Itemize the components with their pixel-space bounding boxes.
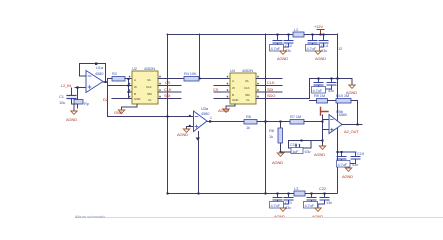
inductor L2 on top bus bbox=[293, 27, 304, 37]
svg-text:W: W bbox=[134, 85, 137, 89]
svg-text:AGND: AGND bbox=[315, 56, 326, 61]
node D2 label bbox=[103, 97, 128, 102]
svg-text:U4: U4 bbox=[230, 68, 236, 73]
svg-text:R9 1M: R9 1M bbox=[314, 93, 325, 98]
junction x322 row122 bbox=[322, 121, 324, 123]
svg-text:A: A bbox=[232, 79, 234, 83]
wire U5 plus input bbox=[323, 129, 330, 131]
svg-text:R10 1M: R10 1M bbox=[336, 93, 349, 98]
wire L2_IN to op-amp bbox=[75, 86, 86, 93]
wire minus input row bbox=[108, 116, 194, 118]
wire row y=78 caps bbox=[310, 79, 353, 99]
wire top bus bbox=[167, 34, 337, 36]
junction at left vertical bbox=[167, 116, 169, 118]
node labels right of U2 bbox=[164, 80, 172, 98]
ground R8 bbox=[272, 153, 284, 165]
node labels right of U4 bbox=[267, 80, 275, 98]
capacitor pair C13 C14 under +12V bbox=[306, 34, 329, 54]
op-amp U5 bbox=[329, 109, 348, 134]
svg-text:W: W bbox=[232, 86, 235, 90]
wire U5 minus input bbox=[323, 119, 330, 121]
svg-text:CLK: CLK bbox=[164, 87, 172, 92]
wire left vertical bbox=[167, 34, 169, 193]
resistor R7 bbox=[290, 114, 322, 124]
footer text bbox=[75, 214, 105, 219]
svg-text:B: B bbox=[134, 92, 136, 96]
svg-text:SDI: SDI bbox=[245, 93, 250, 97]
svg-text:R2: R2 bbox=[112, 71, 118, 76]
ground bottom B bbox=[312, 208, 323, 219]
resistor R6 bbox=[244, 114, 290, 130]
svg-text:GND: GND bbox=[134, 97, 141, 101]
wire vertical mid-right bbox=[265, 34, 267, 193]
wire IC2 left pins bbox=[214, 86, 230, 99]
svg-text:4.7uF: 4.7uF bbox=[338, 162, 348, 167]
resistor R10 bbox=[336, 93, 358, 124]
svg-text:CLK: CLK bbox=[146, 85, 152, 89]
svg-text:SDI: SDI bbox=[147, 92, 152, 96]
svg-text:4.7uF: 4.7uF bbox=[271, 203, 281, 208]
node A2_OUT bbox=[344, 129, 359, 134]
node CS label bbox=[213, 87, 219, 92]
svg-text:C15: C15 bbox=[290, 142, 298, 147]
resistor R4 bbox=[184, 71, 230, 81]
svg-text:4580: 4580 bbox=[339, 112, 348, 117]
svg-text:AGND: AGND bbox=[277, 56, 288, 61]
wire bottom bus bbox=[167, 193, 337, 195]
svg-text:63v: 63v bbox=[321, 48, 327, 53]
junction feedback top bbox=[95, 63, 97, 65]
ground IC1 bbox=[114, 104, 137, 115]
svg-text:AGND: AGND bbox=[314, 152, 325, 157]
capacitor C1 bbox=[59, 88, 76, 105]
junction U3 power bus bbox=[198, 193, 200, 195]
svg-text:43v: 43v bbox=[352, 162, 358, 167]
capacitor pair C18 C19 bbox=[337, 151, 365, 167]
junction right vertical y152 bbox=[337, 151, 339, 153]
ground bottom A bbox=[274, 208, 286, 219]
net flag plus input bbox=[321, 108, 329, 120]
junction bottom bus corners bbox=[167, 193, 267, 195]
svg-text:C19: C19 bbox=[357, 151, 365, 156]
resistor R8 vertical bbox=[269, 122, 283, 153]
svg-text:GND: GND bbox=[114, 110, 123, 115]
op-amp U1 bbox=[86, 65, 104, 93]
svg-text:C22: C22 bbox=[319, 186, 327, 191]
capacitor pair C16 C17 bbox=[312, 78, 337, 94]
svg-text:SDO: SDO bbox=[267, 93, 275, 98]
svg-text:GND: GND bbox=[232, 98, 239, 102]
footer rule bbox=[75, 217, 443, 218]
svg-text:AGND: AGND bbox=[342, 174, 353, 179]
svg-text:VA: VA bbox=[245, 79, 249, 83]
ground IC2 bbox=[218, 104, 235, 113]
svg-text:63v: 63v bbox=[305, 149, 311, 154]
svg-text:1k: 1k bbox=[246, 125, 250, 130]
junction output row mid vertical bbox=[265, 121, 267, 123]
svg-text:1: 1 bbox=[210, 116, 212, 120]
junction U1 out bbox=[105, 81, 107, 83]
svg-text:R7 1M: R7 1M bbox=[290, 114, 301, 119]
inductor L3 bottom bus bbox=[294, 186, 305, 196]
svg-text:10u: 10u bbox=[59, 100, 65, 105]
svg-text:R4 10K: R4 10K bbox=[184, 71, 197, 76]
wire vertical x=322 bbox=[322, 120, 324, 146]
ground AGND input bbox=[66, 111, 77, 122]
wire to IC1 pins bbox=[108, 79, 133, 99]
svg-text:R6: R6 bbox=[246, 114, 252, 119]
svg-text:C1: C1 bbox=[59, 94, 65, 99]
wire IC2 right pins bbox=[256, 79, 309, 99]
svg-text:4052N: 4052N bbox=[144, 66, 155, 71]
svg-text:U2: U2 bbox=[132, 66, 138, 71]
svg-text:L2_IN: L2_IN bbox=[61, 83, 71, 88]
wire U3 power down bbox=[196, 132, 201, 194]
svg-text:13v: 13v bbox=[326, 200, 332, 205]
wire join to ground bbox=[72, 104, 78, 110]
IC U4 4052 bbox=[230, 68, 256, 104]
svg-text:CS: CS bbox=[165, 80, 171, 85]
svg-text:CLK: CLK bbox=[244, 86, 250, 90]
svg-text:B: B bbox=[232, 93, 234, 97]
svg-text:R8: R8 bbox=[269, 128, 275, 133]
svg-text:AGND: AGND bbox=[177, 132, 188, 137]
capacitor pair C11 C12 under top bus bbox=[270, 34, 294, 54]
svg-text:CLK: CLK bbox=[267, 80, 275, 85]
junction output row R7 bbox=[280, 121, 282, 123]
svg-text:1uF: 1uF bbox=[292, 149, 299, 154]
wire U1 output bbox=[103, 79, 108, 117]
svg-text:U1a: U1a bbox=[96, 65, 104, 70]
ground x322 bbox=[314, 146, 326, 157]
svg-text:4.7uF: 4.7uF bbox=[307, 46, 317, 51]
ground cap pair 2 bbox=[315, 51, 326, 61]
wire right vertical bbox=[337, 34, 339, 193]
junction y78 bbox=[337, 78, 339, 80]
svg-text:AGND: AGND bbox=[66, 117, 77, 122]
svg-text:CS: CS bbox=[213, 87, 219, 92]
pin numbers U2 U4 bbox=[129, 76, 259, 98]
wire U3 output row bbox=[207, 116, 244, 123]
IC U2 4052 bbox=[132, 66, 158, 104]
svg-text:4.7uF: 4.7uF bbox=[271, 46, 281, 51]
svg-text:63v: 63v bbox=[285, 48, 291, 53]
wire IC1 right pins bbox=[158, 79, 183, 99]
wire vertical from top bus to R4 node bbox=[199, 34, 201, 79]
svg-text:L3: L3 bbox=[294, 186, 299, 191]
node label on rail bbox=[338, 46, 343, 51]
svg-text:4.7uF: 4.7uF bbox=[305, 203, 315, 208]
svg-text:VA: VA bbox=[147, 78, 151, 82]
svg-text:4052N: 4052N bbox=[242, 68, 253, 73]
capacitor pair C20 C21 bottom A bbox=[270, 193, 294, 211]
svg-text:4580: 4580 bbox=[95, 71, 104, 76]
resistor R2 bbox=[108, 71, 133, 81]
svg-text:12: 12 bbox=[338, 46, 343, 51]
junction R4 right bbox=[199, 78, 201, 80]
svg-text:Rp: Rp bbox=[84, 101, 90, 106]
junction feedback bbox=[357, 124, 359, 126]
ground C18 C19 bbox=[342, 168, 353, 179]
svg-text:SDI: SDI bbox=[267, 87, 273, 92]
svg-text:4580: 4580 bbox=[201, 111, 210, 116]
svg-text:AGND: AGND bbox=[272, 160, 283, 165]
node L2_IN bbox=[61, 83, 71, 88]
ground cap pair 1 bbox=[277, 51, 288, 61]
wire U1 feedback loop bbox=[80, 64, 106, 83]
svg-text:63v: 63v bbox=[285, 205, 291, 210]
wire plus input to ground bbox=[187, 115, 194, 128]
svg-text:SDI: SDI bbox=[164, 93, 170, 98]
svg-text:L2: L2 bbox=[294, 27, 299, 32]
power +12V bbox=[314, 24, 324, 36]
resistor R9 bbox=[310, 93, 337, 103]
svg-text:A: A bbox=[134, 78, 136, 82]
op-amp U3 bbox=[194, 106, 211, 132]
svg-text:AGND: AGND bbox=[218, 108, 229, 113]
wire U5 output bbox=[342, 124, 362, 126]
ground caps right bbox=[346, 79, 357, 96]
svg-text:A2_OUT: A2_OUT bbox=[344, 129, 359, 134]
capacitor pair C22 C23 bottom B bbox=[304, 186, 333, 208]
svg-text:43v: 43v bbox=[328, 88, 334, 93]
ground U3 plus bbox=[177, 129, 190, 137]
resistor R1 bbox=[74, 93, 90, 108]
svg-text:+12V: +12V bbox=[314, 24, 323, 29]
capacitor C15 bbox=[281, 140, 324, 155]
junction dots IC1 left bbox=[128, 78, 130, 93]
svg-text:1k: 1k bbox=[269, 134, 273, 139]
